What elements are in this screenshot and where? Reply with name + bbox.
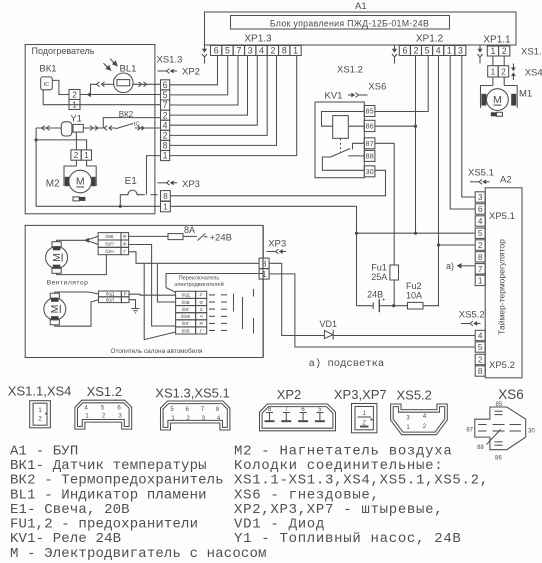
svg-text:BL1 - Индикатор пламени: BL1 - Индикатор пламени — [10, 487, 207, 503]
wire Y1 to BK2 junction — [83, 126, 103, 131]
ground symbol — [132, 309, 140, 313]
svg-text:2: 2 — [163, 131, 168, 141]
svg-text:2: 2 — [72, 90, 77, 100]
svg-text:Р: Р — [200, 293, 203, 298]
connector XP5.1 pin 1 — [475, 275, 485, 285]
svg-text:б0Д: б0Д — [106, 292, 115, 297]
wire branch to XP5.1 pin 2 — [439, 244, 476, 246]
svg-text:Подогреватель: Подогреватель — [32, 46, 95, 56]
wire fan1 bottom to row 3 — [57, 255, 107, 275]
junction dot left rail — [35, 138, 38, 141]
connector XP5.2 pin 5 — [475, 342, 485, 352]
svg-text:1: 1 — [262, 269, 267, 279]
svg-text:б2П: б2П — [105, 242, 114, 247]
svg-text:6: 6 — [163, 80, 168, 90]
wire left rail down — [35, 128, 37, 206]
connector XS1.3 mating arrow at XP1.3 — [202, 45, 207, 64]
svg-text:86: 86 — [366, 122, 374, 131]
connector XP5.1 pin 7 — [475, 264, 485, 274]
svg-text:1: 1 — [490, 46, 495, 56]
svg-text:2: 2 — [74, 150, 79, 160]
fan motor 2 — [44, 298, 66, 320]
svg-text:XS6: XS6 — [368, 82, 386, 93]
svg-text:KV1: KV1 — [325, 91, 343, 102]
svg-text:XS4: XS4 — [525, 68, 542, 79]
svg-text:Е1- Свеча, 20В: Е1- Свеча, 20В — [10, 502, 130, 518]
svg-text:30: 30 — [528, 428, 535, 434]
svg-text:XS5.2: XS5.2 — [397, 388, 432, 403]
svg-text:XS1.1-XS1.3,XS4,XS5.1,XS5.2,: XS1.1-XS1.3,XS4,XS5.1,XS5.2, — [234, 473, 489, 489]
connector pins 2|1 of M2 — [71, 150, 81, 160]
svg-text:ВК1: ВК1 — [39, 64, 56, 75]
svg-text:М: М — [493, 94, 502, 106]
connector XP5.1 pin 8 — [475, 252, 485, 262]
svg-text:Я: Я — [199, 321, 202, 326]
junction dot XP5.1 pin2 branch — [437, 243, 440, 246]
switch slash and +24В — [183, 233, 232, 244]
indicator BL1 (flame photodetector) — [104, 59, 134, 93]
wire XP1.1 pin1 to XS4 pin1 — [492, 56, 494, 66]
fuse 8А — [168, 234, 183, 240]
svg-text:8: 8 — [478, 252, 483, 262]
connector XP3 pin 1 (cabin side) — [259, 269, 269, 279]
wire BK1 bottom to pin 1 through to XS1.3 pin 7 — [43, 90, 160, 105]
wire node to XP5.1 pin 5 — [357, 232, 476, 234]
wire fan2 top to block row A — [55, 292, 99, 294]
svg-text:XP2,XP3,XP7 - штыревые,: XP2,XP3,XP7 - штыревые, — [234, 502, 443, 518]
svg-text:1: 1 — [491, 66, 496, 76]
svg-text:87: 87 — [466, 427, 473, 433]
svg-text:б0Д: б0Д — [181, 293, 190, 298]
junction dot at pin5 wire — [414, 232, 417, 235]
relay KV1 actuator dashed link — [340, 138, 342, 153]
connector XS4 pins 1 2 — [488, 66, 499, 77]
svg-text:XS1.3,XS5.1: XS1.3,XS5.1 — [155, 386, 229, 401]
svg-text:1: 1 — [478, 275, 483, 285]
legend XS6 connector drawing — [466, 402, 535, 462]
svg-text:1: 1 — [293, 46, 298, 56]
svg-text:Переключатель: Переключатель — [179, 276, 220, 282]
svg-text:XP5.2: XP5.2 — [489, 360, 515, 371]
svg-text:XP3,XP7: XP3,XP7 — [334, 387, 387, 402]
svg-text:5: 5 — [478, 342, 483, 352]
wire XP1.3 pin 3 to XS1.3 pin 2 — [170, 56, 248, 116]
svg-text:8: 8 — [478, 366, 483, 376]
wire fan2 bottom to block row B — [55, 300, 99, 327]
connector XS1.3 pin column 6 5 7 2 4 2 8 1 — [161, 80, 170, 161]
wire branch down to switch row 6 — [144, 263, 175, 339]
svg-text:10А: 10А — [406, 291, 422, 301]
connector XP5.1 pin 6 — [475, 204, 485, 214]
svg-text:М: М — [76, 176, 85, 188]
svg-text:6: 6 — [402, 46, 407, 56]
fuse Fu2 — [408, 302, 424, 309]
svg-text:М: М — [51, 253, 63, 262]
svg-text:б0В: б0В — [181, 328, 189, 333]
valve Y1 solenoid — [61, 122, 83, 136]
svg-text:XS1.1,XS4: XS1.1,XS4 — [8, 384, 72, 399]
connector XP2 mating symbol — [158, 69, 178, 74]
svg-text:XP3: XP3 — [268, 239, 286, 250]
legend text left column — [10, 444, 267, 562]
fan motor 1 (Вентилятор) — [46, 247, 68, 269]
svg-text:б0Г: б0Г — [182, 321, 190, 326]
legend XS1.3/XS5.1 connector drawing — [161, 401, 230, 430]
svg-text:1: 1 — [163, 202, 168, 212]
svg-text:Таймер-терморегулятор: Таймер-терморегулятор — [497, 239, 507, 335]
svg-text:VD1: VD1 — [320, 319, 338, 329]
svg-text:4: 4 — [478, 216, 483, 226]
svg-text:4: 4 — [436, 46, 441, 56]
wire XS4 to M1 bracket — [492, 77, 494, 86]
relay KV1 pin 87 — [364, 138, 375, 149]
motor M2 — [69, 170, 92, 193]
svg-text:2: 2 — [501, 66, 506, 76]
motor switch block Переключатель электродвигателей — [166, 274, 259, 293]
svg-text:5: 5 — [425, 46, 430, 56]
connector XP1.1 pins 1 2 — [487, 46, 510, 56]
svg-text:XS1.2: XS1.2 — [87, 384, 122, 399]
svg-text:XS5.2: XS5.2 — [459, 310, 485, 321]
connector XP5.1 pin 2 — [475, 240, 485, 250]
svg-text:8: 8 — [163, 141, 168, 151]
wire XP1.3 pin 7 to XS1.3 pin 7 — [170, 56, 238, 106]
legend XS1.1/XS4 connector drawing — [30, 401, 51, 428]
wire left rail to Y1 — [36, 126, 61, 131]
svg-text:б0В: б0В — [105, 234, 113, 239]
glow plug E1 — [120, 190, 144, 195]
junction dot pin 86 — [414, 125, 417, 128]
legend XP2 connector drawing — [260, 404, 336, 431]
svg-text:ВК2 - Термопредохранитель: ВК2 - Термопредохранитель — [10, 473, 224, 489]
relay KV1 coil wires — [322, 112, 365, 127]
wire BK1 to pin 2 — [52, 80, 69, 94]
switch position dashes — [209, 289, 254, 334]
connector XS6 mating symbol — [348, 93, 368, 98]
svg-text:М2 - Нагнетатель воздуха: М2 - Нагнетатель воздуха — [234, 444, 452, 460]
svg-text:Ф: Ф — [123, 242, 127, 247]
svg-text:М2: М2 — [46, 179, 60, 190]
svg-text:XP3: XP3 — [182, 179, 200, 190]
connector XS1.1 mating arrow at XP1.1 — [477, 45, 482, 64]
wire XP3 pin 8 to KV1 pin 30 — [170, 170, 385, 196]
relay KV1 pin 30 — [364, 166, 375, 177]
svg-text:XP1.1: XP1.1 — [483, 35, 511, 46]
relay KV1 pin 85 — [364, 106, 375, 117]
connector XP1.3 pins 6 5 7 3 4 2 8 1 — [211, 46, 302, 56]
svg-text:6: 6 — [478, 204, 483, 214]
svg-text:XS5.1: XS5.1 — [468, 168, 494, 179]
svg-text:б0Л: б0Л — [106, 298, 114, 303]
svg-text:б0Г: б0Г — [182, 307, 190, 312]
svg-text:1: 1 — [163, 151, 168, 161]
svg-text:87: 87 — [366, 139, 374, 148]
svg-text:Fu1: Fu1 — [371, 263, 387, 273]
svg-text:XS6: XS6 — [498, 387, 524, 402]
svg-text:XP1.2: XP1.2 — [416, 34, 444, 45]
wire block row3 down to XP3 pin 8 — [129, 252, 260, 263]
svg-text:3: 3 — [248, 46, 253, 56]
svg-text:XS6 - гнездовые,: XS6 - гнездовые, — [234, 487, 380, 503]
wire XP1.2 pin 2 down (via KV1 pin 86) to node at XP5.1 pin5 wire — [415, 56, 417, 234]
svg-text:tC: tC — [44, 82, 50, 88]
wire XS1.3 pin 1 down to E1 — [147, 156, 161, 195]
svg-text:Вентилятор: Вентилятор — [47, 279, 89, 286]
svg-text:З: З — [200, 307, 203, 312]
svg-text:Колодки соединительные:: Колодки соединительные: — [234, 458, 443, 474]
junction dot pin5-wire / XP3-1 vertical — [355, 232, 358, 235]
wire BK2 bypass to XS1.3 pin 2 — [103, 118, 160, 128]
svg-text:4: 4 — [163, 120, 168, 130]
wire row1 to fuse — [129, 235, 168, 237]
svg-text:2: 2 — [502, 46, 507, 56]
wire XP1.2 pin 3 to XP5.1 pin 3 — [462, 56, 475, 198]
svg-text:2: 2 — [414, 46, 419, 56]
svg-text:7: 7 — [478, 264, 483, 274]
battery GB 24V — [373, 297, 386, 313]
svg-text:85: 85 — [366, 107, 374, 116]
connector block 2 rows — [99, 291, 130, 303]
junction dot battery plus / Fu1 — [392, 304, 395, 307]
control unit A1 box Блок управления — [205, 12, 517, 45]
svg-text:8А: 8А — [184, 225, 195, 235]
connector XP5.2 pin 2 — [475, 354, 485, 364]
motor M2 housing and brushes — [64, 160, 96, 186]
svg-text:б0Ж: б0Ж — [181, 314, 191, 319]
junction arrow mark — [87, 92, 92, 97]
svg-text:б2Н: б2Н — [105, 249, 114, 254]
wire XP1.3 pin 1 to XS1.3 pin 1 — [170, 56, 297, 156]
connector XS1.2 mating arrow at XP1.2 — [392, 45, 397, 64]
motor M1 — [487, 89, 509, 111]
svg-text:XS1.1: XS1.1 — [521, 47, 542, 58]
svg-text:2: 2 — [163, 110, 168, 120]
svg-text:8: 8 — [163, 191, 168, 201]
svg-text:2: 2 — [478, 240, 483, 250]
svg-text:1: 1 — [447, 46, 452, 56]
wire XP1.3 pin 4 to XS1.3 pin 4 — [170, 56, 258, 126]
wire block row B to ground — [129, 300, 136, 309]
svg-text:М1: М1 — [519, 89, 532, 100]
relay KV1 pin 88 — [364, 150, 375, 161]
svg-text:XS1.3: XS1.3 — [157, 55, 183, 66]
legend XS5.2 connector drawing — [391, 404, 448, 435]
svg-text:8: 8 — [282, 46, 287, 56]
svg-text:XS1.2: XS1.2 — [337, 65, 363, 76]
connector XP5.1 pin 5 — [475, 228, 485, 238]
svg-text:VD1 - Диод: VD1 - Диод — [234, 517, 325, 533]
svg-text:3: 3 — [458, 46, 463, 56]
wire BL1 line with connector arrows to XS1.3 pin 6 — [97, 82, 161, 87]
relay KV1 box — [315, 102, 364, 178]
svg-text:FU1,2 - предохранители: FU1,2 - предохранители — [10, 517, 198, 533]
polarity mark M2 — [73, 197, 85, 201]
svg-text:электродвигателей: электродвигателей — [174, 281, 223, 288]
wire battery rail — [357, 305, 374, 307]
svg-text:XP5.1: XP5.1 — [489, 211, 515, 222]
connector XP3 pin 1 (heater side) — [161, 201, 171, 211]
wire break dash to XP3 pin 8 — [151, 194, 158, 196]
wire XP1.2 pin 1 to XP5.1 pin 6 — [450, 56, 475, 210]
connector pins 2/1 of BK1/BL1 — [69, 90, 80, 100]
heater box Подогреватель — [25, 45, 155, 214]
motor M1 housing — [481, 86, 518, 109]
svg-text:3: 3 — [478, 192, 483, 202]
connector XP5.1 pin 3 — [475, 192, 485, 202]
svg-text:Fu2: Fu2 — [406, 281, 422, 291]
wire XP1.3 pin 5 to XS1.3 pin 5 — [170, 56, 228, 95]
svg-text:24В: 24В — [367, 289, 383, 299]
ground rail wire to XP3 pin 1 and on to battery minus — [36, 205, 160, 207]
svg-text:5: 5 — [225, 46, 230, 56]
svg-text:А1: А1 — [355, 1, 367, 12]
fuse Fu1 — [390, 265, 399, 280]
svg-text:а) подсветка: а) подсветка — [309, 358, 385, 370]
svg-text:XP2: XP2 — [277, 387, 302, 402]
connector block 3 rows — [98, 233, 129, 255]
wire XP1.3 pin 8 to XS1.3 pin 8 — [170, 56, 277, 146]
wire +24В feed down to XP3 pin 8 (box top corner) — [259, 273, 263, 275]
connector XP3 pin 8 (cabin side) — [259, 258, 269, 268]
wire E1 left to ground rail — [119, 195, 121, 207]
svg-text:2: 2 — [270, 46, 275, 56]
svg-text:88: 88 — [477, 445, 484, 451]
connector XP5.1 pin 4 — [475, 216, 485, 226]
svg-text:А1 - БУП: А1 - БУП — [10, 444, 78, 460]
svg-text:7: 7 — [163, 100, 168, 110]
box right edge through pins — [262, 225, 264, 258]
svg-text:Блок управления ПЖД-12Б-01М-24: Блок управления ПЖД-12Б-01М-24В — [270, 18, 429, 28]
svg-text:Отопитель салона автомобиля: Отопитель салона автомобиля — [111, 347, 204, 355]
svg-text:KV1- Реле 24В: KV1- Реле 24В — [10, 531, 121, 547]
connector XS5.1 mating symbol — [470, 179, 490, 184]
fan motor 1 terminals — [52, 242, 61, 274]
svg-text:Y1 - Топливный насос, 24В: Y1 - Топливный насос, 24В — [234, 530, 462, 547]
svg-text:88: 88 — [366, 152, 374, 161]
connector XS4 mating arrows — [511, 64, 516, 81]
wire XP1.3 pin 2 to XS1.3 pin 2 — [170, 56, 268, 136]
connector XP1.2 pins 6 2 5 4 1 3 — [399, 46, 466, 56]
connector XP3 mating symbol (cabin side) — [267, 249, 287, 254]
connector XP5.2 pin 8 — [475, 366, 485, 376]
wire block row2 down to switch row 5 — [129, 245, 176, 327]
wire Y1 valve to M2 pin 2 — [75, 132, 77, 150]
svg-text:4: 4 — [259, 46, 264, 56]
svg-text:Р: Р — [124, 292, 127, 297]
wire fan2 row A to switch row 1 — [129, 294, 176, 295]
svg-text:Е1: Е1 — [125, 176, 138, 187]
wire branch down to switch row 2 — [157, 263, 175, 302]
svg-text:6: 6 — [214, 46, 219, 56]
svg-text:М: М — [49, 305, 61, 314]
svg-text:Ф: Ф — [199, 300, 203, 305]
wire KV1 pin 86 stub — [375, 125, 416, 127]
wire XP3 pin 8 to VD1 to XP5.2 pin 4 — [269, 263, 324, 335]
svg-text:Y1: Y1 — [70, 114, 82, 125]
svg-text:Ф: Ф — [123, 234, 127, 239]
svg-text:Ч: Ч — [200, 314, 203, 319]
legend XP3/XP7 connector drawing — [352, 404, 377, 433]
wire KV1 pin 87 down through Fu1 to battery plus — [375, 143, 394, 265]
svg-text:2: 2 — [478, 355, 483, 365]
svg-text:5: 5 — [478, 228, 483, 238]
wire XP1.3 pin 6 to XS1.3 pin 6 — [170, 56, 218, 85]
svg-text:ВК1- Датчик температуры: ВК1- Датчик температуры — [10, 458, 207, 474]
svg-text:30: 30 — [366, 167, 374, 176]
svg-text:б0В: б0В — [181, 300, 189, 305]
svg-text:5: 5 — [163, 90, 168, 100]
junction dot E1 ground — [119, 205, 122, 208]
svg-text:86: 86 — [495, 456, 502, 462]
svg-text:4: 4 — [478, 331, 483, 341]
svg-text:8: 8 — [262, 258, 267, 268]
svg-text:XP1.3: XP1.3 — [244, 34, 272, 45]
thermal fuse BK2 switch — [104, 122, 161, 131]
wire Fu2 to XP1.2 pin 4 vertical — [423, 56, 439, 306]
connector XP3 mating symbol (heater side) — [158, 180, 178, 185]
svg-text:а): а) — [446, 261, 454, 271]
svg-text:М - Электродвигатель с насосом: М - Электродвигатель с насосом — [10, 546, 267, 562]
wire XP1.2 pin 5 to KV1 pin 85 — [375, 56, 429, 112]
connector XP3 pin 8 (heater side) — [161, 191, 171, 201]
wire XP1.1 pin2 to XS4 pin2 — [503, 56, 505, 66]
sensor BK1 (tC) — [41, 77, 53, 90]
relay KV1 pin 86 — [364, 120, 375, 131]
relay KV1 switch — [322, 143, 364, 170]
wire XP3 pin 1 to XP5.2 pin 5 — [269, 274, 475, 347]
wire pin 2 to junction to XS1.3 pin 5 — [80, 94, 161, 96]
svg-text:+24В: +24В — [210, 233, 232, 244]
fan motor 2 terminals — [50, 293, 59, 325]
svg-text:25А: 25А — [371, 272, 387, 282]
node a) backlight arrow — [446, 261, 475, 271]
diode VD1 — [324, 330, 333, 340]
wire junction up to BL1 line — [91, 84, 98, 94]
wire fan1 top to rows 1,2 — [57, 240, 87, 241]
svg-text:XP2: XP2 — [182, 67, 200, 78]
connector XS5.2 mating symbol — [461, 321, 481, 326]
cabin heater box Отопитель салона автомобиля — [25, 225, 263, 357]
legend XS1.2 connector drawing — [75, 400, 132, 429]
wire junction to M2 pin 1 — [36, 140, 87, 150]
relay KV1 coil — [333, 116, 349, 139]
connector XP5.2 pin 4 — [475, 330, 485, 340]
svg-text:А2: А2 — [500, 175, 512, 186]
polarity mark M1 — [491, 112, 503, 116]
svg-text:7: 7 — [236, 46, 241, 56]
timer-thermoregulator A2 box — [485, 188, 522, 378]
svg-text:1: 1 — [84, 150, 89, 160]
legend text right column — [234, 444, 489, 548]
svg-text:85: 85 — [495, 402, 502, 408]
svg-text:+: + — [382, 297, 386, 304]
